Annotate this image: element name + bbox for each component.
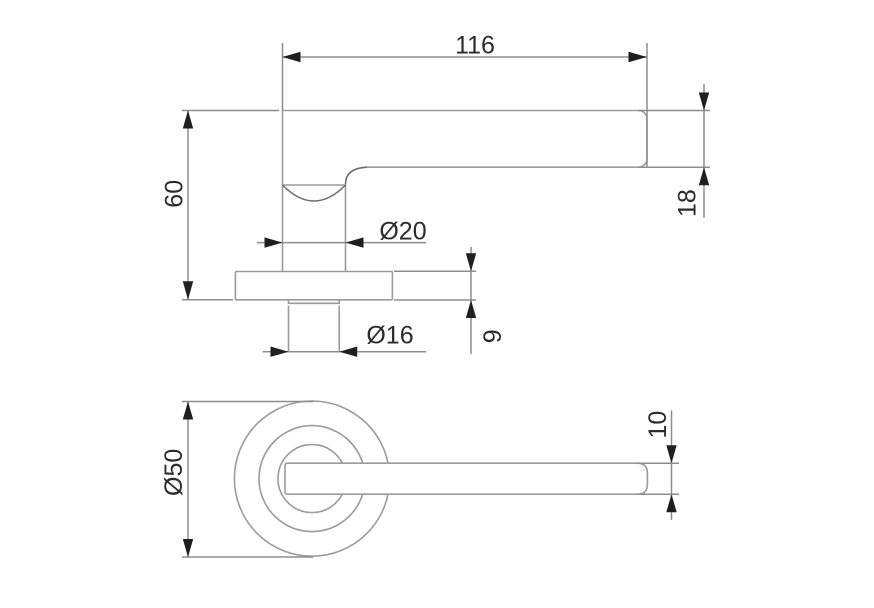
neck cove chord [283,184,346,186]
spindle collar step [289,300,340,303]
rose front view inner circle [278,445,346,513]
dimension diameter 50 line [187,402,189,558]
dimension diameter 16 left arrow [271,347,289,357]
svg-text:Ø50: Ø50 [160,449,188,496]
dimension 10 leaders [636,463,679,494]
dimension diameter 16 line [263,351,427,353]
dimension 9 leaders [394,271,476,300]
dimension diameter 50 bottom arrow [183,539,193,557]
dimension 18 bottom arrow [699,167,709,185]
dimension 10 bottom arrow [666,494,676,512]
svg-text:116: 116 [455,32,495,60]
spindle collar sides [289,306,340,353]
dimension diameter 50 leaders [182,402,313,558]
neck cove arc [283,185,346,201]
dimension diameter 20 line [257,242,426,244]
dimension 116 line [283,56,648,58]
dimension 18 leaders [638,111,710,168]
dimension diameter 20 right arrow [346,237,364,247]
dimension 10 top arrow [666,445,676,463]
dimension diameter 20 left arrow [265,237,283,247]
svg-text:18: 18 [674,189,702,217]
svg-text:Ø16: Ø16 [366,322,413,350]
svg-text:9: 9 [479,329,507,343]
dimension 116 right arrow [629,52,648,62]
rose front view outer circle [234,401,389,556]
dimension 116 extension lines [283,43,648,167]
dimension 9 bottom arrow [466,300,476,318]
dimension 10 line [671,411,673,521]
dimension 60 top arrow [183,111,193,129]
dimension 9 top arrow [466,253,476,271]
dimension 60 bottom arrow [183,281,193,300]
dimension 9 line [470,247,472,354]
dimension 18 top arrow [699,93,709,111]
dimension diameter 16 right arrow [339,347,357,357]
dimension 116 left arrow [283,52,301,62]
svg-text:60: 60 [160,180,188,208]
lever handle side view outline [283,111,648,272]
lever front view bar [285,463,647,494]
rose plate side view [235,272,392,300]
dimension diameter 50 top arrow [183,402,193,420]
svg-text:10: 10 [644,411,672,439]
svg-text:Ø20: Ø20 [379,218,426,246]
dimension 18 line [703,84,705,218]
dimension 60 leaders [182,111,279,300]
rose front view middle circle [259,426,365,532]
dimension 60 line [187,111,189,300]
